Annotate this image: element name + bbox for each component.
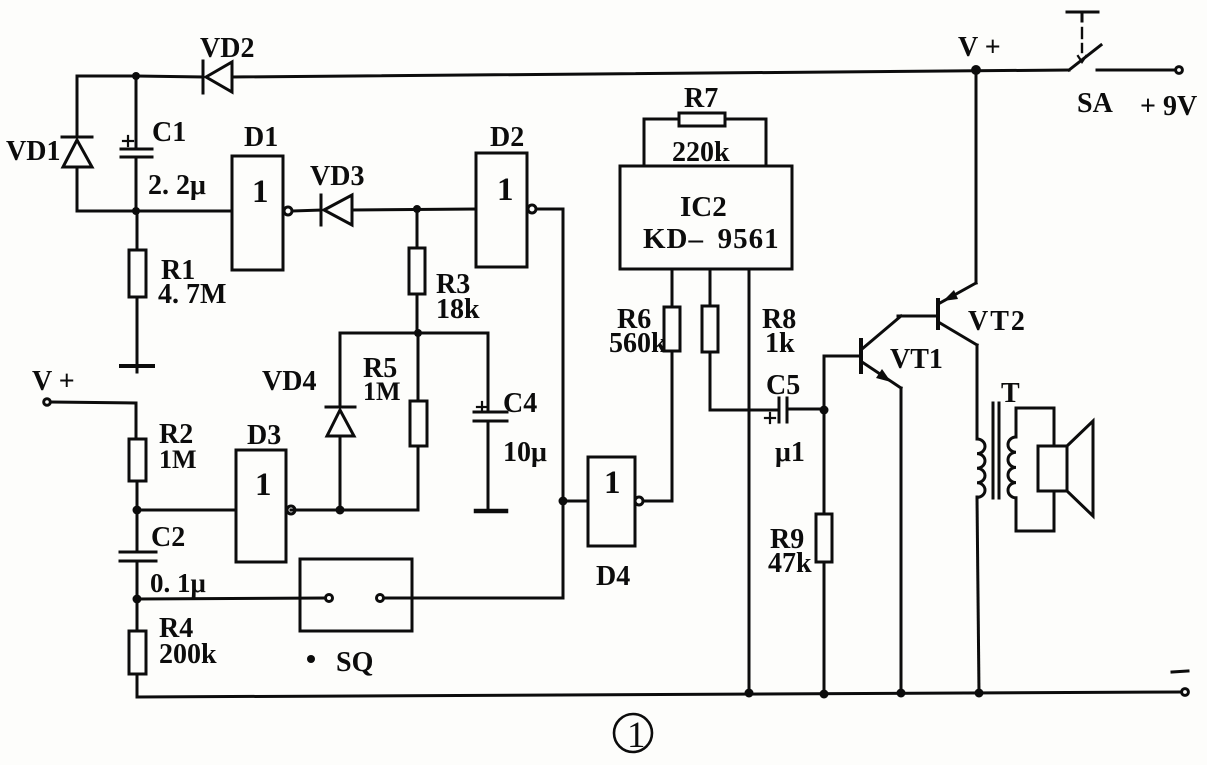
svg-text:IC2: IC2 — [680, 191, 727, 223]
transformer T primary — [977, 439, 985, 693]
diode VD1 — [62, 137, 92, 211]
svg-text:10μ: 10μ — [503, 437, 547, 468]
node top-left junction — [132, 72, 140, 80]
resistor R7 — [644, 113, 766, 166]
gate D4 — [563, 457, 643, 546]
wire mid horizontal R3/VD4/R5/C4 — [340, 332, 488, 335]
node VD4 bottom junction — [336, 506, 345, 515]
svg-text:1: 1 — [255, 467, 272, 503]
switch SQ contacts — [326, 595, 384, 602]
wire top rail left — [77, 76, 203, 77]
svg-text:1M: 1M — [159, 445, 197, 474]
transistor Q VT2 — [898, 283, 977, 439]
svg-text:D2: D2 — [490, 122, 524, 153]
node R3 top junction — [413, 205, 421, 213]
gate D2 — [476, 153, 536, 267]
node rail2 junction — [132, 207, 140, 215]
svg-text:V +: V + — [32, 366, 75, 397]
svg-text:0. 1μ: 0. 1μ — [150, 568, 206, 598]
diode VD3 — [321, 195, 352, 225]
diode VD4 — [326, 333, 355, 510]
wire SQ to D4 input — [384, 597, 563, 600]
svg-text:1: 1 — [627, 715, 646, 756]
wire D1 out — [293, 210, 321, 211]
node C5 junction — [820, 406, 829, 415]
wire D4 out to R6 — [644, 351, 672, 501]
IC U2 box — [620, 166, 792, 269]
label minus — [1172, 671, 1188, 672]
svg-text:R7: R7 — [684, 83, 718, 114]
svg-text:47k: 47k — [768, 548, 812, 579]
node R2 bottom junction — [133, 506, 142, 515]
wire C2 to SQ — [137, 598, 325, 599]
node R9 bottom — [820, 690, 829, 699]
svg-text:D4: D4 — [596, 561, 630, 592]
node V+ top — [971, 65, 981, 75]
svg-text:1k: 1k — [765, 328, 795, 359]
svg-text:2. 2μ: 2. 2μ — [148, 170, 206, 201]
svg-text:560k: 560k — [609, 328, 667, 359]
svg-text:1M: 1M — [363, 377, 401, 406]
resistor R9 — [816, 410, 832, 693]
wire V+ drop to VT2 — [975, 70, 978, 283]
wire IC2 pin3 down — [748, 269, 751, 692]
resistor R8 — [702, 269, 778, 410]
wire R2 to D3 — [137, 509, 236, 512]
svg-text:+ 9V: + 9V — [1140, 91, 1197, 122]
wire D2 out down — [537, 209, 563, 598]
node transformer bottom — [975, 689, 984, 698]
svg-text:V +: V + — [958, 32, 1001, 63]
resistor R6 — [664, 269, 680, 351]
resistor R4 — [129, 599, 146, 697]
transformer T secondary — [1008, 408, 1054, 531]
svg-text:KD– 9561: KD– 9561 — [643, 223, 780, 255]
terminal +9V — [1176, 67, 1183, 74]
svg-text:C2: C2 — [151, 522, 185, 553]
switch SA — [1067, 12, 1174, 70]
node VT1 emitter bottom — [897, 689, 906, 698]
resistor R2 — [129, 439, 146, 510]
wire bottom rail — [137, 692, 1181, 697]
svg-text:1: 1 — [252, 174, 269, 210]
svg-text:D1: D1 — [244, 122, 278, 153]
svg-text:C5: C5 — [766, 370, 800, 401]
wire top rail right — [232, 70, 1069, 77]
svg-text:1: 1 — [497, 172, 514, 208]
wire left drop to VD1 — [76, 76, 79, 137]
wire C5 to VT1 base — [824, 356, 860, 410]
svg-text:C1: C1 — [152, 117, 186, 148]
transistor Q VT1 — [861, 316, 901, 693]
gate D3 — [236, 450, 295, 562]
wire rail2 — [77, 210, 232, 213]
ground below C4 — [476, 509, 506, 514]
terminal bottom right — [1182, 689, 1189, 696]
wire VD3 to D2 — [352, 209, 476, 210]
resistor R3 — [409, 209, 425, 333]
node D4 input junction — [559, 497, 568, 506]
svg-text:1: 1 — [604, 465, 621, 501]
resistor R1 — [129, 211, 146, 363]
svg-text:VD1: VD1 — [6, 136, 60, 167]
capacitor C2 — [120, 510, 156, 599]
label SQ dot — [307, 655, 315, 663]
node C2 bottom junction — [133, 595, 142, 604]
capacitor C1 — [121, 76, 152, 211]
diode VD2 — [203, 61, 232, 93]
transformer core — [993, 403, 999, 498]
svg-text:VT1: VT1 — [890, 344, 943, 375]
ground below R1 — [121, 366, 153, 372]
svg-text:SA: SA — [1077, 88, 1114, 119]
figure number circled 1 — [614, 714, 652, 752]
svg-text:4. 7M: 4. 7M — [158, 279, 226, 310]
svg-text:18k: 18k — [436, 294, 480, 325]
svg-text:200k: 200k — [159, 639, 217, 670]
svg-text:VD3: VD3 — [310, 161, 364, 192]
svg-text:VD4: VD4 — [262, 366, 316, 397]
svg-text:C4: C4 — [503, 388, 537, 419]
svg-text:T: T — [1001, 378, 1020, 409]
svg-text:SQ: SQ — [336, 647, 373, 678]
resistor R5 — [291, 333, 427, 510]
speaker — [1038, 421, 1093, 516]
svg-text:VT2: VT2 — [968, 306, 1027, 337]
svg-text:220k: 220k — [672, 137, 730, 168]
node mid junction — [414, 329, 422, 337]
capacitor C5 — [765, 398, 824, 423]
svg-text:D3: D3 — [247, 420, 281, 451]
switch SQ box — [300, 559, 412, 631]
capacitor C4 — [474, 333, 507, 509]
svg-text:VD2: VD2 — [200, 33, 254, 64]
gate D1 — [232, 156, 292, 270]
terminal V+ left — [44, 399, 136, 439]
svg-text:μ1: μ1 — [775, 437, 805, 468]
node pin3 bottom — [745, 689, 754, 698]
